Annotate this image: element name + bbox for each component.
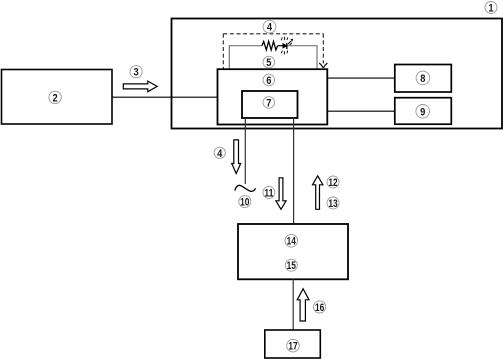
svg-text:16: 16 — [315, 302, 324, 314]
svg-text:9: 9 — [420, 106, 425, 118]
svg-text:4: 4 — [217, 148, 223, 160]
svg-text:3: 3 — [134, 67, 139, 79]
svg-text:8: 8 — [420, 73, 425, 85]
svg-text:17: 17 — [288, 341, 297, 353]
svg-text:11: 11 — [264, 187, 273, 199]
svg-text:2: 2 — [53, 92, 58, 104]
svg-text:10: 10 — [240, 197, 249, 209]
svg-text:1: 1 — [488, 3, 493, 15]
svg-text:4: 4 — [267, 22, 273, 34]
svg-text:12: 12 — [328, 177, 337, 189]
svg-text:6: 6 — [266, 75, 271, 87]
svg-text:15: 15 — [287, 260, 296, 272]
svg-text:14: 14 — [287, 236, 297, 248]
svg-text:13: 13 — [328, 198, 337, 210]
svg-text:7: 7 — [266, 98, 271, 110]
svg-text:5: 5 — [266, 57, 271, 69]
